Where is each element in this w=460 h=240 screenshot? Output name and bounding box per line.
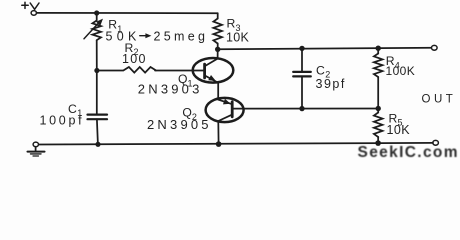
label R2 <box>125 41 139 57</box>
label +V <box>22 2 39 9</box>
resistor R3 <box>213 13 222 49</box>
ground <box>28 142 45 156</box>
label R4 <box>386 54 400 70</box>
resistor R4 <box>374 48 383 108</box>
svg-text:OUT: OUT <box>422 94 457 106</box>
junction R4 top <box>376 46 381 51</box>
value 10K (R5) <box>387 123 411 137</box>
junction C1 bottom <box>95 142 100 147</box>
value 50K to 25meg <box>106 30 209 44</box>
junction R3 bottom <box>215 47 220 52</box>
transistor Q2 <box>206 98 244 144</box>
label Q2 <box>182 106 197 122</box>
terminal output top <box>432 45 438 50</box>
capacitor C1 <box>88 71 108 145</box>
junction R4 R5 <box>376 106 381 111</box>
svg-text:25meg: 25meg <box>154 30 209 44</box>
watermark SeekIC.com <box>358 144 459 161</box>
svg-text:SeekIC.com: SeekIC.com <box>358 144 459 161</box>
node OUT <box>422 94 457 106</box>
value 2N3905 <box>147 117 212 132</box>
svg-text:C: C <box>316 63 325 77</box>
svg-text:39pf: 39pf <box>316 77 346 91</box>
value 10K <box>226 30 250 44</box>
label C1 <box>68 102 82 118</box>
resistor R1 <box>84 13 103 71</box>
value 100pf <box>40 114 85 128</box>
resistor R5 <box>374 109 383 144</box>
resistor R2 <box>97 67 156 73</box>
terminal output bottom <box>433 140 439 145</box>
terminal +V <box>31 11 36 16</box>
label R5 <box>389 111 403 127</box>
svg-text:10K: 10K <box>387 123 411 137</box>
label R1 <box>108 18 122 34</box>
svg-text:2N3903: 2N3903 <box>138 82 203 97</box>
value 2N3903 <box>138 82 203 97</box>
svg-text:100K: 100K <box>386 64 416 78</box>
svg-text:100pf: 100pf <box>40 114 85 128</box>
wire R2 to Q1 base <box>155 70 205 72</box>
svg-text:R: R <box>227 17 236 31</box>
value 39pf <box>316 77 346 91</box>
wire bottom rail <box>38 143 433 145</box>
junction C2 bottom <box>299 106 304 111</box>
value 100 <box>122 52 147 66</box>
wire mid-top rail to output terminal <box>218 48 434 50</box>
junction C2 top <box>299 46 304 51</box>
svg-text:100: 100 <box>122 52 147 66</box>
capacitor C2 <box>293 48 311 108</box>
svg-text:10K: 10K <box>226 30 250 44</box>
label C2 <box>316 63 330 79</box>
label R3 <box>227 17 241 33</box>
svg-text:50K: 50K <box>106 30 141 44</box>
junction R1 top <box>94 10 99 15</box>
svg-text:2N3905: 2N3905 <box>147 117 212 132</box>
wire top rail +V to R3 <box>37 12 218 14</box>
value 100K <box>386 64 416 78</box>
wire mid rail Q2 base to R4 R5 junction <box>244 108 379 110</box>
junction Q2 collector bottom <box>216 141 222 147</box>
junction R5 bottom <box>375 140 381 146</box>
transistor Q1 <box>193 49 234 99</box>
junction R2 left <box>94 68 99 73</box>
label Q1 <box>178 72 193 89</box>
